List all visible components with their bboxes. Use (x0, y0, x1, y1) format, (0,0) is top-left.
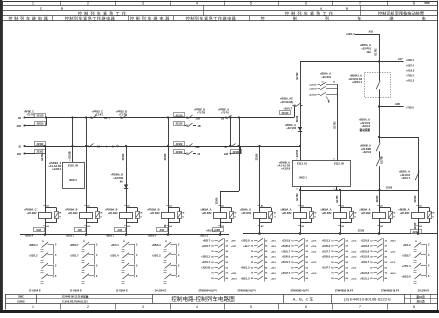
wire feed ch2 coil (85, 116, 87, 118)
svg-text:E113_00: E113_00 (334, 162, 344, 165)
svg-text:+23/7: +23/7 (231, 246, 237, 248)
svg-text:22106: 22106 (216, 197, 219, 204)
mirror contact row 2 (29, 253, 57, 265)
svg-text:+27/1.4: +27/1.4 (402, 264, 411, 268)
svg-text:232: 232 (196, 146, 201, 149)
relay coil K02 channel 7 (280, 205, 316, 228)
svg-text:+B1/1: +B1/1 (231, 278, 237, 280)
svg-text:+B09A1_A: +B09A1_A (349, 73, 362, 77)
svg-text:+23/3.8: +23/3.8 (241, 240, 250, 243)
svg-text:+23.6: +23.6 (271, 246, 277, 248)
svg-text:+23/1.4: +23/1.4 (110, 254, 119, 258)
svg-text:14: 14 (333, 81, 335, 84)
svg-text:A0B: A0B (395, 103, 400, 106)
relay coil K02 channel 8 (320, 205, 356, 228)
relay coil K02 channel 5 (200, 205, 236, 228)
svg-text:13: 13 (322, 82, 324, 84)
svg-text:E1702: E1702 (296, 149, 299, 157)
page left edge dark margin (0, 0, 2, 313)
title block bottom number strip (60, 303, 62, 309)
svg-text:+B05B_A: +B05B_A (360, 143, 371, 147)
mirror contact row 5 (202, 260, 229, 265)
svg-text:+22-P01: +22-P01 (361, 47, 371, 51)
mirror contact row 7 (331, 271, 348, 276)
svg-text:27W4262-0LF4: 27W4262-0LF4 (237, 288, 256, 292)
svg-text:2006: 2006 (424, 2, 430, 5)
wire feed ch9 coil (379, 190, 381, 212)
mirror contact row 1 (152, 242, 181, 254)
svg-text:+71-7A: +71-7A (221, 112, 229, 115)
svg-text:+23.6: +23.6 (271, 273, 277, 275)
svg-text:+PFBE_C: +PFBE_C (24, 111, 35, 113)
svg-text:+22-P08: +22-P08 (113, 176, 123, 180)
svg-text:27W4262-0LF4: 27W4262-0LF4 (381, 288, 400, 292)
svg-text:+22-K02: +22-K02 (150, 211, 160, 215)
outer frame (2, 1, 438, 3)
svg-text:+23/1.7: +23/1.7 (202, 261, 211, 264)
svg-text:+22-K02: +22-K02 (361, 211, 371, 215)
mirror contact row 1 (322, 238, 358, 243)
mirror contact row 7 (360, 271, 396, 276)
svg-text:22106: 22106 (255, 153, 258, 160)
node A0B wire (378, 105, 380, 107)
page bottom dark margin (0, 310, 439, 313)
svg-text:21B: 21B (17, 125, 22, 128)
svg-text:+B2/3.4: +B2/3.4 (25, 235, 34, 238)
mirror contact row 6 (241, 265, 277, 270)
rail tag A06 (115, 228, 126, 232)
svg-text:+73/2.4: +73/2.4 (406, 74, 414, 77)
svg-text:M: M (183, 213, 185, 215)
module box BKO1 (293, 161, 351, 187)
svg-text:E113_01: E113_01 (297, 162, 307, 165)
svg-text:+23/1: +23/1 (231, 273, 237, 275)
svg-text:BKO 1: BKO 1 (299, 177, 307, 180)
svg-text:+B1/1.8: +B1/1.8 (360, 256, 369, 259)
svg-text:+01/5.6: +01/5.6 (322, 245, 331, 248)
svg-text:J06: J06 (78, 229, 83, 232)
mirror contact row 4 (282, 255, 309, 260)
svg-text:1O: 1O (97, 146, 100, 148)
svg-text:+22/1.6: +22/1.6 (309, 84, 317, 86)
wire riser to contact row from upper main (294, 106, 296, 118)
svg-text:+23.5: +23.5 (390, 251, 396, 253)
mirror contact row 2 (70, 253, 98, 265)
mirror contact row 5 (361, 260, 397, 265)
svg-text:(3) E44010-80108-S222-E: (3) E44010-80108-S222-E (344, 297, 391, 302)
svg-text:+02/1.2: +02/1.2 (322, 240, 331, 243)
svg-text:+23.5: +23.5 (351, 257, 357, 259)
wire box BKO1 bottom pins to rail (300, 186, 302, 190)
svg-text:+22-K01-S2: +22-K01-S2 (348, 77, 362, 81)
svg-text:7: 7 (359, 305, 361, 309)
wire feed ch6 coil (258, 145, 260, 147)
svg-text:+01/7.7: +01/7.7 (322, 267, 331, 270)
contact on lower main left-mid (86, 146, 88, 148)
svg-text:D-U204 E: D-U204 E (70, 288, 82, 292)
mirror contact row 2 (281, 244, 317, 249)
mirror contact row 4 (82, 274, 99, 284)
svg-text:A06: A06 (117, 229, 122, 232)
relay coil K02 channel 10 (398, 205, 434, 228)
wire join upper rows (46, 118, 48, 126)
svg-text:+2B/1.2: +2B/1.2 (201, 256, 210, 259)
svg-text:D-U204 E: D-U204 E (155, 288, 167, 292)
wire coil bottom to rail ch5 (220, 223, 222, 235)
mirror contact row 3 (164, 263, 181, 275)
relay coil K02 channel 3 (105, 205, 143, 228)
svg-text:+03/2.4: +03/2.4 (406, 59, 414, 62)
wire mid rail 22100 (300, 190, 418, 192)
wire feed ch1 coil (45, 146, 47, 212)
mirror contact row 5 (331, 260, 348, 265)
svg-text:+P209A_B: +P209A_B (110, 173, 123, 177)
svg-text:+P209A_B: +P209A_B (65, 207, 78, 211)
svg-text:22106: 22106 (164, 153, 167, 160)
wire bottom rail right segment (243, 233, 437, 235)
svg-text:+B1/1.1: +B1/1.1 (360, 277, 369, 280)
svg-text:+23.6: +23.6 (271, 268, 277, 270)
svg-text:B: B (346, 7, 348, 11)
svg-text:+22.7: +22.7 (243, 245, 250, 248)
svg-text:22110: 22110 (176, 114, 183, 117)
switch S01 actuator arrow (326, 97, 330, 102)
svg-text:+B05B_A: +B05B_A (398, 207, 409, 211)
svg-text:M: M (315, 213, 317, 215)
mirror contact row 6 (291, 265, 308, 270)
svg-text:A18: A18 (369, 30, 374, 33)
header row2 dividers (203, 5, 205, 10)
svg-text:+B/3.7: +B/3.7 (203, 240, 211, 243)
svg-text:+B3/1.3: +B3/1.3 (200, 235, 209, 238)
svg-text:+B3/3.7: +B3/3.7 (106, 235, 115, 238)
svg-text:+22-S01(3): +22-S01(3) (280, 100, 293, 104)
svg-text:A、B、C 车: A、B、C 车 (293, 297, 314, 302)
svg-text:22110: 22110 (37, 115, 44, 118)
svg-text:控制列车继电器: 控制列车继电器 (130, 15, 171, 21)
svg-text:+22-K02: +22-K02 (282, 211, 292, 215)
svg-text:共10页: 共10页 (416, 300, 425, 304)
mirror contact row 6 (370, 265, 387, 270)
mirror contact row 3 (82, 263, 99, 275)
svg-text:E102_00: E102_00 (68, 165, 79, 168)
wire feed ch3 coil (125, 145, 127, 147)
svg-text:5: 5 (250, 2, 252, 6)
svg-text:+71-7B: +71-7B (119, 113, 128, 117)
svg-text:+22/1.8: +22/1.8 (309, 88, 317, 90)
svg-text:+22-K0B: +22-K0B (361, 147, 371, 151)
svg-text:3: 3 (142, 2, 144, 6)
svg-text:+23/1.7: +23/1.7 (202, 245, 211, 248)
svg-text:+B09A_A: +B09A_A (200, 207, 211, 211)
mirror contact row 3 (41, 263, 58, 275)
mirror contact row 1 (111, 242, 138, 254)
svg-text:22110: 22110 (296, 115, 299, 122)
svg-text:+73/2.6: +73/2.6 (406, 108, 414, 110)
svg-text:+22-K02: +22-K02 (68, 211, 78, 215)
mirror contact row 3 (281, 249, 317, 254)
svg-text:+B2/3.7: +B2/3.7 (66, 235, 75, 238)
svg-text:控 制 列 车 继 电 器: 控 制 列 车 继 电 器 (261, 15, 439, 21)
svg-text:+22-K02: +22-K02 (241, 211, 251, 215)
svg-text:+B09A_A: +B09A_A (280, 207, 291, 211)
mirror contact row 8 (331, 276, 357, 281)
svg-text:22102: 22102 (176, 151, 183, 154)
svg-text:+23/1.8: +23/1.8 (282, 240, 291, 243)
svg-text:+23.6: +23.6 (351, 278, 357, 280)
mirror contact row 1 (70, 242, 99, 254)
svg-text:+23/1.2: +23/1.2 (29, 254, 38, 258)
svg-text:+22-V06: +22-V06 (286, 126, 296, 130)
svg-text:BKO 3: BKO 3 (69, 179, 77, 182)
relay coil K02 channel 2 (65, 205, 103, 228)
mirror contact row 2 (361, 244, 388, 249)
svg-text:+B5/3.4: +B5/3.4 (152, 243, 162, 247)
svg-text:E102B: E102B (69, 151, 72, 159)
mirror contact row 1 (203, 238, 237, 243)
wire upper main bus 22110 (25, 117, 295, 119)
mirror contact row 4 (251, 255, 277, 260)
wire branch vertical x418 (418, 137, 420, 190)
svg-text:+22-K01: +22-K01 (400, 211, 410, 215)
svg-text:+02/5.6: +02/5.6 (322, 256, 331, 259)
wire coil bottom to rail ch3 (126, 223, 128, 235)
wire coil bottom to rail ch4 (168, 223, 170, 235)
svg-text:A: A (320, 7, 322, 11)
svg-text:控制电路-控制列车电路图: 控制电路-控制列车电路图 (171, 295, 235, 303)
svg-text:22110: 22110 (176, 123, 183, 126)
svg-text:+01/7.7: +01/7.7 (322, 250, 331, 253)
svg-text:+23.5: +23.5 (271, 251, 277, 253)
svg-text:DWC: DWC (18, 296, 24, 299)
svg-text:G06: G06 (36, 229, 41, 232)
svg-text:232: 232 (224, 153, 229, 156)
wire box BKO1 pin E113_00 from switch (337, 84, 339, 160)
svg-text:D-U204 E: D-U204 E (116, 288, 128, 292)
svg-text:+B1/1.8: +B1/1.8 (360, 272, 369, 275)
mirror contact row 2 (110, 253, 138, 265)
mirror contact row 3 (402, 263, 430, 275)
svg-text:+B1/1.7: +B1/1.7 (281, 261, 290, 264)
wire branch to x418 (378, 136, 380, 138)
svg-text:M: M (433, 213, 435, 215)
wire box BKO1 pin E113_01 from lower main (300, 146, 302, 161)
svg-text:+A1/5.3: +A1/5.3 (406, 69, 415, 72)
svg-text:E1702: E1702 (41, 153, 44, 161)
svg-text:21B: 21B (196, 117, 201, 120)
svg-text:+02/1.8: +02/1.8 (361, 124, 370, 128)
mirror contact row 7 (251, 271, 277, 276)
wire vertical net right of contact (300, 62, 302, 106)
svg-text:+B5/1.3: +B5/1.3 (206, 229, 216, 233)
svg-text:+23/1.8: +23/1.8 (361, 245, 370, 248)
svg-text:6: 6 (305, 2, 307, 6)
svg-text:+B05A_A: +B05A_A (399, 169, 410, 173)
svg-text:8: 8 (413, 305, 415, 309)
svg-text:1B: 1B (18, 117, 21, 120)
mirror contact row 3 (211, 249, 228, 254)
svg-text:D-U204 E: D-U204 E (418, 288, 430, 292)
mirror contact row 7 (281, 271, 317, 276)
svg-text:+B05A_A: +B05A_A (320, 72, 331, 76)
header row lines (2, 5, 437, 7)
svg-text:27W4244-0LF4: 27W4244-0LF4 (198, 288, 217, 292)
wire join lower rows (45, 146, 47, 154)
svg-text:E1702: E1702 (374, 48, 377, 56)
svg-text:22102: 22102 (176, 143, 183, 146)
svg-text:7: 7 (359, 2, 361, 6)
contact 232 lower main (174, 142, 185, 146)
mirror contact row 7 (211, 271, 237, 276)
svg-text:控制列车紧急工作继电器: 控制列车紧急工作继电器 (65, 15, 116, 21)
title block lines (6, 294, 438, 296)
mirror contact row 2 (402, 253, 430, 265)
svg-text:9A: 9A (120, 179, 123, 183)
svg-text:M: M (274, 213, 276, 215)
mirror contact row 5 (281, 260, 317, 265)
svg-text:22100: 22100 (414, 195, 417, 202)
contact lower on trunk (379, 156, 381, 158)
svg-text:+03/7.4: +03/7.4 (406, 64, 414, 67)
svg-text:+02/5.6: +02/5.6 (282, 256, 291, 259)
svg-text:E1705: E1705 (336, 195, 339, 203)
svg-text:+23/1.8: +23/1.8 (361, 240, 370, 243)
rail tag A0B (213, 228, 224, 232)
svg-text:2: 2 (87, 305, 89, 309)
svg-text:1: 1 (32, 2, 34, 6)
svg-text:控制列车紧急工作继电器: 控制列车紧急工作继电器 (186, 15, 237, 21)
svg-text:+71-7B: +71-7B (26, 115, 34, 117)
mirror contact row 3 (122, 263, 139, 275)
svg-text:+02/1.7: +02/1.7 (401, 176, 410, 180)
mirror contact row 3 (322, 249, 358, 254)
wire right trunk vertical upper (379, 34, 381, 73)
svg-text:+B2/1.8: +B2/1.8 (360, 250, 369, 253)
svg-text:22010: 22010 (37, 123, 44, 126)
svg-text:+22-K02: +22-K02 (27, 211, 37, 215)
svg-text:22110: 22110 (282, 112, 289, 115)
svg-text:A06: A06 (159, 229, 164, 232)
svg-text:+B09A_A: +B09A_A (359, 207, 370, 211)
svg-text:+22-K02: +22-K02 (108, 211, 118, 215)
wire bottom rail left (20, 234, 229, 236)
svg-text:22100: 22100 (376, 195, 379, 202)
svg-text:202: 202 (17, 153, 22, 156)
mirror contact row 3 (251, 249, 277, 254)
header column ticks row1 (60, 1, 62, 6)
svg-text:E1702: E1702 (296, 72, 299, 80)
mirror contact row 8 (360, 276, 387, 281)
mirror contact row 2 (243, 244, 276, 249)
svg-text:4: 4 (196, 2, 198, 6)
svg-text:+A1/1.3: +A1/1.3 (406, 79, 415, 82)
svg-text:22102: 22102 (122, 153, 125, 160)
svg-text:+23.6: +23.6 (271, 278, 277, 280)
mirror contact row 4 (322, 255, 358, 260)
header row3 dividers (203, 11, 205, 16)
wire feed box BKO3 from upper main (71, 116, 73, 118)
relay coil K02 channel 6 (240, 205, 276, 228)
wire feed ch10 coil (418, 190, 420, 212)
svg-text:+23.5: +23.5 (351, 251, 357, 253)
mirror contact row 8 (211, 276, 237, 281)
contact S2 inside enclosure (379, 73, 381, 81)
relay coil K02 channel 9 (359, 205, 395, 228)
svg-text:+B09A_A: +B09A_A (240, 207, 251, 211)
mirror contact row 1 (403, 242, 430, 254)
svg-text:+23.5: +23.5 (311, 262, 317, 264)
svg-text:2: 2 (87, 2, 89, 6)
svg-text:+22-K01: +22-K01 (360, 121, 370, 125)
mirror contact row 6 (201, 265, 228, 270)
rail tag A06 (157, 228, 168, 232)
svg-text:+B05A_A: +B05A_A (360, 43, 371, 47)
svg-text:+71-K7: +71-K7 (95, 113, 104, 117)
svg-text:+23.6: +23.6 (351, 241, 357, 243)
svg-text:+A3/3.4: +A3/3.4 (52, 167, 62, 171)
svg-text:M: M (101, 213, 103, 215)
svg-text:3: 3 (142, 305, 144, 309)
svg-text:E1702: E1702 (296, 193, 299, 201)
node junction upper main x168 (167, 116, 169, 118)
mirror contact row 1 (241, 238, 277, 243)
mirror contact row 8 (291, 276, 308, 281)
svg-text:+B5/3.7: +B5/3.7 (70, 243, 80, 247)
stub contact row under upper main (168, 118, 170, 126)
svg-text:+B/1.2: +B/1.2 (403, 243, 411, 247)
svg-text:+02/1.3: +02/1.3 (346, 32, 355, 36)
svg-text:22102: 22102 (233, 151, 240, 154)
svg-text:10A: 10A (366, 50, 371, 54)
svg-text:M: M (394, 213, 396, 215)
svg-text:+22-K01: +22-K01 (400, 173, 410, 177)
svg-text:D-U204 E: D-U204 E (29, 288, 41, 292)
wire right trunk middle (379, 98, 381, 137)
rail tag J06 (75, 228, 86, 232)
svg-text:+71-7B: +71-7B (197, 112, 205, 115)
wire coil bottom to rail ch1 (45, 223, 47, 235)
svg-text:控制列车继电器: 控制列车继电器 (8, 15, 49, 21)
mirror contact row 1 (282, 238, 318, 243)
svg-text:E1702: E1702 (333, 121, 336, 129)
svg-text:+B05A_AC: +B05A_AC (280, 96, 293, 100)
svg-text:+23.6: +23.6 (311, 241, 317, 243)
svg-text:A17: A17 (398, 58, 403, 61)
mirror contact row 2 (152, 253, 180, 265)
svg-text:M: M (235, 213, 237, 215)
wire feed ch7 coil (300, 190, 302, 212)
svg-text:+23.5: +23.5 (271, 257, 277, 259)
svg-text:+22/10.1: +22/10.1 (352, 80, 363, 84)
svg-text:22102: 22102 (37, 151, 44, 154)
svg-text:+B5.6: +B5.6 (390, 241, 396, 243)
wire coil bottom to rail ch9 (379, 223, 381, 234)
mirror contact row 5 (251, 260, 277, 265)
svg-text:M: M (355, 213, 357, 215)
wire coil bottom to rail ch10 (418, 223, 420, 234)
node A17 wire (378, 60, 380, 62)
svg-text:+23.5: +23.5 (311, 251, 317, 253)
svg-text:+P209A_B: +P209A_B (105, 207, 118, 211)
wire coil bottom to rail ch8 (340, 223, 342, 234)
svg-text:+B3/3.4: +B3/3.4 (148, 235, 157, 238)
svg-text:+A1/5.8: +A1/5.8 (281, 167, 291, 171)
svg-text:+B/3.4: +B/3.4 (111, 243, 119, 247)
svg-text:+23/2.7: +23/2.7 (402, 254, 411, 258)
svg-text:4: 4 (196, 305, 198, 309)
wire link upper to lower main (230, 118, 232, 147)
mirror contact row 4 (41, 274, 58, 284)
